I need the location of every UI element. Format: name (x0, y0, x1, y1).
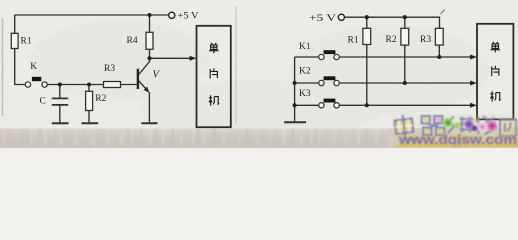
svg-text:+5 V: +5 V (178, 11, 200, 21)
svg-text:www.dqjsw.com: www.dqjsw.com (398, 133, 517, 147)
svg-text:R3: R3 (420, 35, 431, 45)
svg-text:R2: R2 (386, 35, 397, 45)
svg-text:R1: R1 (21, 37, 32, 47)
svg-text:R1: R1 (348, 36, 359, 46)
svg-text:R4: R4 (127, 36, 138, 46)
svg-text:K: K (30, 62, 37, 72)
svg-text:C: C (40, 97, 46, 107)
svg-text:K1: K1 (299, 42, 311, 52)
svg-text:K3: K3 (299, 89, 311, 99)
svg-text:K2: K2 (299, 67, 311, 77)
svg-text:R3: R3 (104, 64, 115, 74)
svg-text:+5 V: +5 V (309, 14, 336, 24)
svg-text:R2: R2 (95, 94, 106, 104)
